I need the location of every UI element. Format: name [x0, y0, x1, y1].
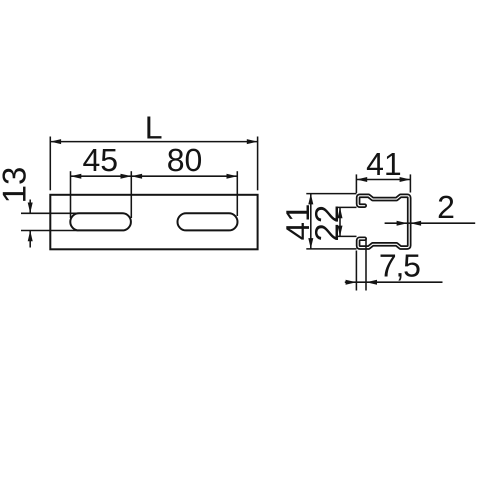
svg-text:80: 80	[167, 142, 203, 178]
dimension L arrow left	[50, 139, 61, 144]
svg-text:13: 13	[0, 167, 33, 204]
dimension 41 left arrow up	[308, 194, 313, 205]
dimension L line	[50, 141, 257, 143]
dimension 2 arrow at outer wall (points left)	[410, 221, 421, 226]
svg-text:7,5: 7,5	[379, 248, 420, 284]
dimension 45 extension line left	[70, 171, 72, 218]
dimension 13 extension line bottom	[21, 230, 79, 232]
dimension L extension line left	[49, 137, 51, 191]
dimension 13 extension line top	[21, 212, 79, 214]
dimension L arrow right	[247, 139, 258, 144]
dimension 80 arrow right	[227, 174, 238, 179]
dimension 45 arrow left	[71, 174, 82, 179]
dimension 41 left extension line bottom	[306, 248, 356, 250]
dimension 45/80 shared extension line	[130, 171, 132, 218]
dimension 7,5 arrow left (points right)	[346, 280, 357, 285]
dimension 13 upper leader	[29, 200, 31, 214]
slot 2 (right slot)	[178, 213, 238, 230]
dimension 22 line	[339, 207, 341, 236]
C-profile cross-section sheet white core	[358, 196, 409, 248]
dimension 22 extension line bottom	[337, 235, 357, 237]
dimension 13 lower arrow (points up)	[28, 231, 33, 242]
C-profile cross-section sheet outline	[358, 196, 409, 248]
svg-text:L: L	[145, 109, 163, 145]
svg-text:41: 41	[366, 146, 402, 182]
dimension 45 line	[71, 175, 132, 177]
dimension 41 left arrow down	[308, 238, 313, 249]
dimension 45 arrow right	[121, 174, 132, 179]
dimension 7,5 extension line right	[365, 240, 367, 291]
dimension 41 top extension line right	[409, 174, 411, 192]
dimension 80 extension line right	[236, 171, 238, 216]
dimension 22 extension line top	[337, 206, 357, 208]
dimension 41 left line	[310, 194, 312, 249]
dimension 22 arrow up	[338, 207, 343, 218]
dimension 13 upper arrow (points down)	[28, 203, 33, 214]
dimension 80 line	[131, 175, 237, 177]
dimension 41 top arrow left	[356, 177, 367, 182]
dimension 2 arrow at inner wall (points right)	[397, 221, 408, 226]
slot 1 (left slot)	[70, 213, 131, 230]
svg-text:2: 2	[437, 189, 455, 225]
dimension 7,5 line	[345, 281, 443, 283]
dimension 13 lower leader	[29, 231, 31, 248]
dimension 7,5 extension line left	[355, 251, 357, 291]
dimension 80 arrow left	[131, 174, 142, 179]
dimension 41 left extension line top	[306, 193, 356, 195]
dimension L extension line right	[257, 137, 259, 191]
plate outline (top view of strut)	[50, 195, 257, 250]
svg-text:22: 22	[308, 205, 345, 242]
dimension 41 top line	[356, 179, 410, 181]
dimension 2 line	[385, 222, 476, 224]
svg-text:45: 45	[83, 142, 119, 178]
dimension 22 arrow down	[338, 226, 343, 237]
dimension 41 top extension line left	[355, 174, 357, 193]
dimension 41 top arrow right	[400, 177, 411, 182]
dimension 7,5 arrow right (points left)	[366, 280, 377, 285]
